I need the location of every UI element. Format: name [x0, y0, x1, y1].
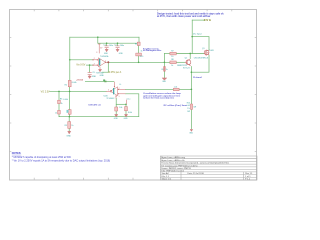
power stub op-amp1 V+ — [96, 44, 103, 54]
svg-text:C1: C1 — [103, 45, 105, 47]
svg-text:R10: R10 — [187, 102, 190, 104]
capacitor C6 comp x164.4 — [161, 67, 168, 84]
svg-text:Size A4: Size A4 — [162, 172, 170, 175]
resistor R5 below rail x69.1 — [65, 122, 74, 129]
junction dots — [58, 36, 193, 118]
op-amp1 V- gnd — [96, 67, 105, 78]
resistor R11 x116.2 — [115, 107, 123, 111]
svg-text:GND: GND — [100, 75, 105, 77]
wire top rail left block — [70, 36, 139, 38]
svg-text:6: 6 — [108, 90, 109, 92]
svg-text:3: 3 — [94, 64, 95, 66]
ground below C3 — [88, 76, 97, 79]
wire left chain to rail corner — [58, 114, 60, 117]
svg-text:R shunt!: R shunt! — [193, 76, 202, 79]
svg-text:6.04k: 6.04k — [63, 99, 67, 101]
svg-text:49.9: 49.9 — [140, 56, 144, 58]
svg-text:+0.05V per A: +0.05V per A — [107, 71, 121, 74]
svg-text:Vin 0-5V: Vin 0-5V — [76, 64, 86, 67]
svg-text:1 of 1: 1 of 1 — [245, 176, 251, 178]
svg-text:R5: R5 — [65, 125, 67, 127]
svg-text:Rev 1.1: Rev 1.1 — [245, 173, 253, 175]
wire op-amp2 lower input to rail — [126, 94, 139, 117]
svg-text:100n: 100n — [120, 45, 124, 47]
resistor R3 upper x138.8 — [135, 42, 143, 52]
svg-text:GND: GND — [124, 118, 129, 120]
svg-text:Q2: Q2 — [185, 58, 188, 60]
wire left chain mid — [58, 104, 60, 111]
svg-text:10.0k: 10.0k — [128, 112, 132, 114]
wire op-amp1 noninverting input — [86, 64, 93, 66]
svg-text:R3: R3 — [135, 43, 137, 45]
svg-text:at 25°C, then with clean power: at 25°C, then with clean power and cold … — [157, 15, 210, 18]
svg-text:Bryan Lizon, <A0Bx> chk: Bryan Lizon, <A0Bx> chk — [161, 159, 185, 162]
node output comp — [164, 61, 166, 63]
svg-text:VG 2.5V: VG 2.5V — [41, 90, 50, 93]
wire comp cap chain — [163, 54, 165, 67]
node rail2 cap2 — [117, 42, 119, 44]
svg-text:2: 2 — [94, 58, 95, 60]
svg-text:Tel: (xxx)xxx-xxxx PMP15013-C1: Tel: (xxx)xxx-xxxx PMP15013-C1 demo — [161, 165, 198, 167]
sheet border — [10, 10, 257, 181]
svg-text:GND: GND — [119, 53, 124, 55]
node V- tee — [125, 103, 127, 105]
wire Q2 collector — [189, 54, 191, 59]
op-amp U1A — [93, 55, 109, 67]
resistor R6b x59 — [55, 110, 60, 114]
resistor R12 x126 — [125, 98, 133, 114]
svg-text:* Vin 1V to 2.25XV equals 1A t: * Vin 1V to 2.25XV equals 1A to 5A respe… — [12, 160, 111, 163]
node VG mid — [69, 91, 71, 93]
svg-text:3W: 3W — [187, 111, 190, 113]
svg-text:Q1: Q1 — [202, 48, 205, 50]
svg-text:R2: R2 — [65, 84, 67, 86]
svg-text:R6: R6 — [60, 99, 62, 101]
svg-text:Title: PMP15013 Control: Title: PMP15013 Control — [161, 170, 184, 173]
transistor Q1 MOSFET — [194, 48, 215, 59]
wire left divider middle — [69, 60, 71, 81]
wire mid divider segment — [69, 91, 71, 109]
svg-text:before the final assembly test: before the final assembly test — [143, 97, 174, 100]
svg-text:V+: V+ — [119, 84, 121, 86]
svg-text:0.05: 0.05 — [187, 105, 191, 107]
wire feedback corner — [102, 62, 108, 72]
svg-text:* MOSFET capable of dissipatin: * MOSFET capable of dissipating at least… — [12, 156, 72, 159]
wire left chain down — [58, 91, 60, 100]
resistor R9 lower x138.6 — [136, 53, 144, 58]
svg-text:C6: C6 — [161, 69, 163, 71]
svg-text:The (C) Texas Instruments Inco: The (C) Texas Instruments Incorporated -… — [161, 162, 229, 165]
wire Q1 source loop — [191, 55, 209, 72]
node VG left — [58, 91, 60, 93]
wire decoupling rail2 — [98, 42, 138, 44]
ground below R5 — [66, 131, 71, 138]
svg-text:DC Input: DC Input — [193, 32, 202, 35]
wire mid divider to rail — [68, 114, 70, 116]
svg-text:GND: GND — [114, 118, 119, 120]
svg-text:8: 8 — [96, 52, 97, 54]
svg-text:6.04k: 6.04k — [72, 82, 77, 84]
svg-text:5: 5 — [119, 96, 120, 98]
svg-text:1.0k: 1.0k — [174, 87, 177, 89]
svg-text:R8: R8 — [171, 59, 173, 61]
wire 24V entry top — [192, 19, 204, 21]
pin speck V+ — [105, 80, 107, 83]
svg-text:TLV9062: TLV9062 — [106, 98, 115, 100]
wire below rail to R GND — [68, 117, 70, 122]
resistor R2 divider x69.7 — [65, 80, 77, 86]
svg-text:+5V/2A: +5V/2A — [76, 79, 83, 82]
svg-text:GND: GND — [92, 76, 97, 78]
svg-text:File: 1.1: File: 1.1 — [162, 176, 170, 178]
wire op-amp1 output — [107, 61, 170, 63]
transistor Q2 BJT — [177, 58, 191, 70]
svg-text:Date: 29 Jul 2016: Date: 29 Jul 2016 — [188, 172, 205, 175]
node rail2 cap1 — [106, 42, 108, 44]
op-amp1 pin specks — [93, 59, 106, 65]
svg-text:NOTES:: NOTES: — [12, 152, 22, 155]
node 24V branch — [191, 36, 193, 38]
svg-text:DC mOhm (Curr) 3mm: DC mOhm (Curr) 3mm — [164, 105, 187, 107]
svg-text:0.1u: 0.1u — [127, 98, 131, 100]
svg-text:GND: GND — [104, 53, 109, 55]
shunt resistor R10 — [187, 102, 197, 112]
svg-text:1k: 1k — [55, 112, 57, 114]
wire op-amp1 inverting input — [70, 59, 93, 61]
wire op-amp2 V+ path — [85, 81, 114, 83]
svg-text:TLV9062: TLV9062 — [96, 72, 105, 74]
node gate collector — [189, 53, 191, 55]
wire R3 chain top corner — [138, 37, 140, 42]
ground below R11 — [115, 114, 118, 117]
wire bottom rail — [59, 116, 139, 118]
wire cap1 stub — [106, 43, 108, 46]
wire shunt top — [190, 89, 192, 104]
svg-text:R7: R7 — [171, 50, 173, 52]
wire vertical left divider top — [69, 37, 71, 60]
wire base net — [176, 61, 185, 63]
resistor R4 mid divider x69.5 — [63, 99, 71, 114]
wire cap drop at +input — [89, 65, 91, 72]
resistor R6a x59 — [58, 99, 63, 106]
svg-text:24V In: 24V In — [204, 19, 212, 22]
capacitor C2 on rail2 x117.5 — [114, 45, 124, 55]
border zone ticks — [9, 9, 257, 180]
svg-text:100V: 100V — [209, 50, 214, 52]
svg-text:no Darlington drive: no Darlington drive — [143, 49, 162, 52]
svg-text:1.0k: 1.0k — [119, 107, 122, 109]
wire gate net — [164, 53, 170, 55]
wire VG net horizontal — [50, 90, 106, 92]
node divider inv input — [69, 59, 71, 61]
capacitor C1 on rail2 x106.6 — [103, 45, 113, 55]
node output R3 — [138, 61, 140, 63]
wire Q2 emitter down — [190, 66, 192, 89]
op-amp U1B mirrored — [104, 82, 126, 101]
svg-text:10: 10 — [171, 56, 173, 58]
ground below shunt — [190, 129, 193, 131]
resistor R13 sense series — [173, 87, 179, 91]
svg-text:C2: C2 — [114, 45, 116, 47]
svg-text:C3: C3 — [92, 72, 94, 74]
wire shunt bottom — [190, 110, 192, 129]
node rail V+ — [97, 36, 99, 38]
svg-text:1k: 1k — [71, 125, 73, 127]
svg-text:TLV9062A: TLV9062A — [100, 55, 109, 58]
node shunt sense — [191, 88, 193, 90]
svg-text:Sheet: 1/1: Sheet: 1/1 — [162, 178, 172, 181]
wire sense feedback — [126, 88, 174, 90]
svg-text:100n: 100n — [109, 45, 113, 47]
svg-text:5W: 5W — [193, 106, 196, 108]
svg-text:F 1.1: F 1.1 — [245, 179, 251, 181]
wire drain branch — [192, 37, 209, 50]
node rail mid — [69, 116, 71, 118]
wire cap2 stub — [117, 43, 119, 46]
svg-text:1k: 1k — [171, 65, 173, 67]
svg-text:0.5V A/V set: 0.5V A/V set — [88, 103, 101, 106]
svg-text:1n: 1n — [166, 69, 168, 71]
ground below R12 — [124, 114, 127, 117]
node source merge — [191, 71, 193, 73]
svg-text:Bryan Lizon, <A0Bx> eng: Bryan Lizon, <A0Bx> eng — [161, 156, 185, 159]
wire op-amp2 V- tee — [115, 98, 117, 107]
resistor R7 gate horizontal — [170, 50, 176, 58]
node output feedback (red pin junction) — [107, 61, 109, 63]
svg-text:GND: GND — [66, 136, 71, 138]
op-amp2 pin specks — [114, 86, 119, 96]
svg-text:1k: 1k — [61, 103, 63, 105]
node +input cap — [89, 64, 91, 66]
wire left divider below R2 — [69, 87, 71, 92]
svg-text:CSD18537NKCS: CSD18537NKCS — [194, 58, 209, 60]
svg-text:1%: 1% — [187, 108, 190, 110]
capacitor C3 at +input x89.6 — [88, 72, 95, 76]
wire V+ drop to rail2 — [97, 37, 99, 43]
resistor R8 base horizontal — [170, 59, 176, 67]
svg-text:SOT-23: SOT-23 — [183, 68, 190, 70]
